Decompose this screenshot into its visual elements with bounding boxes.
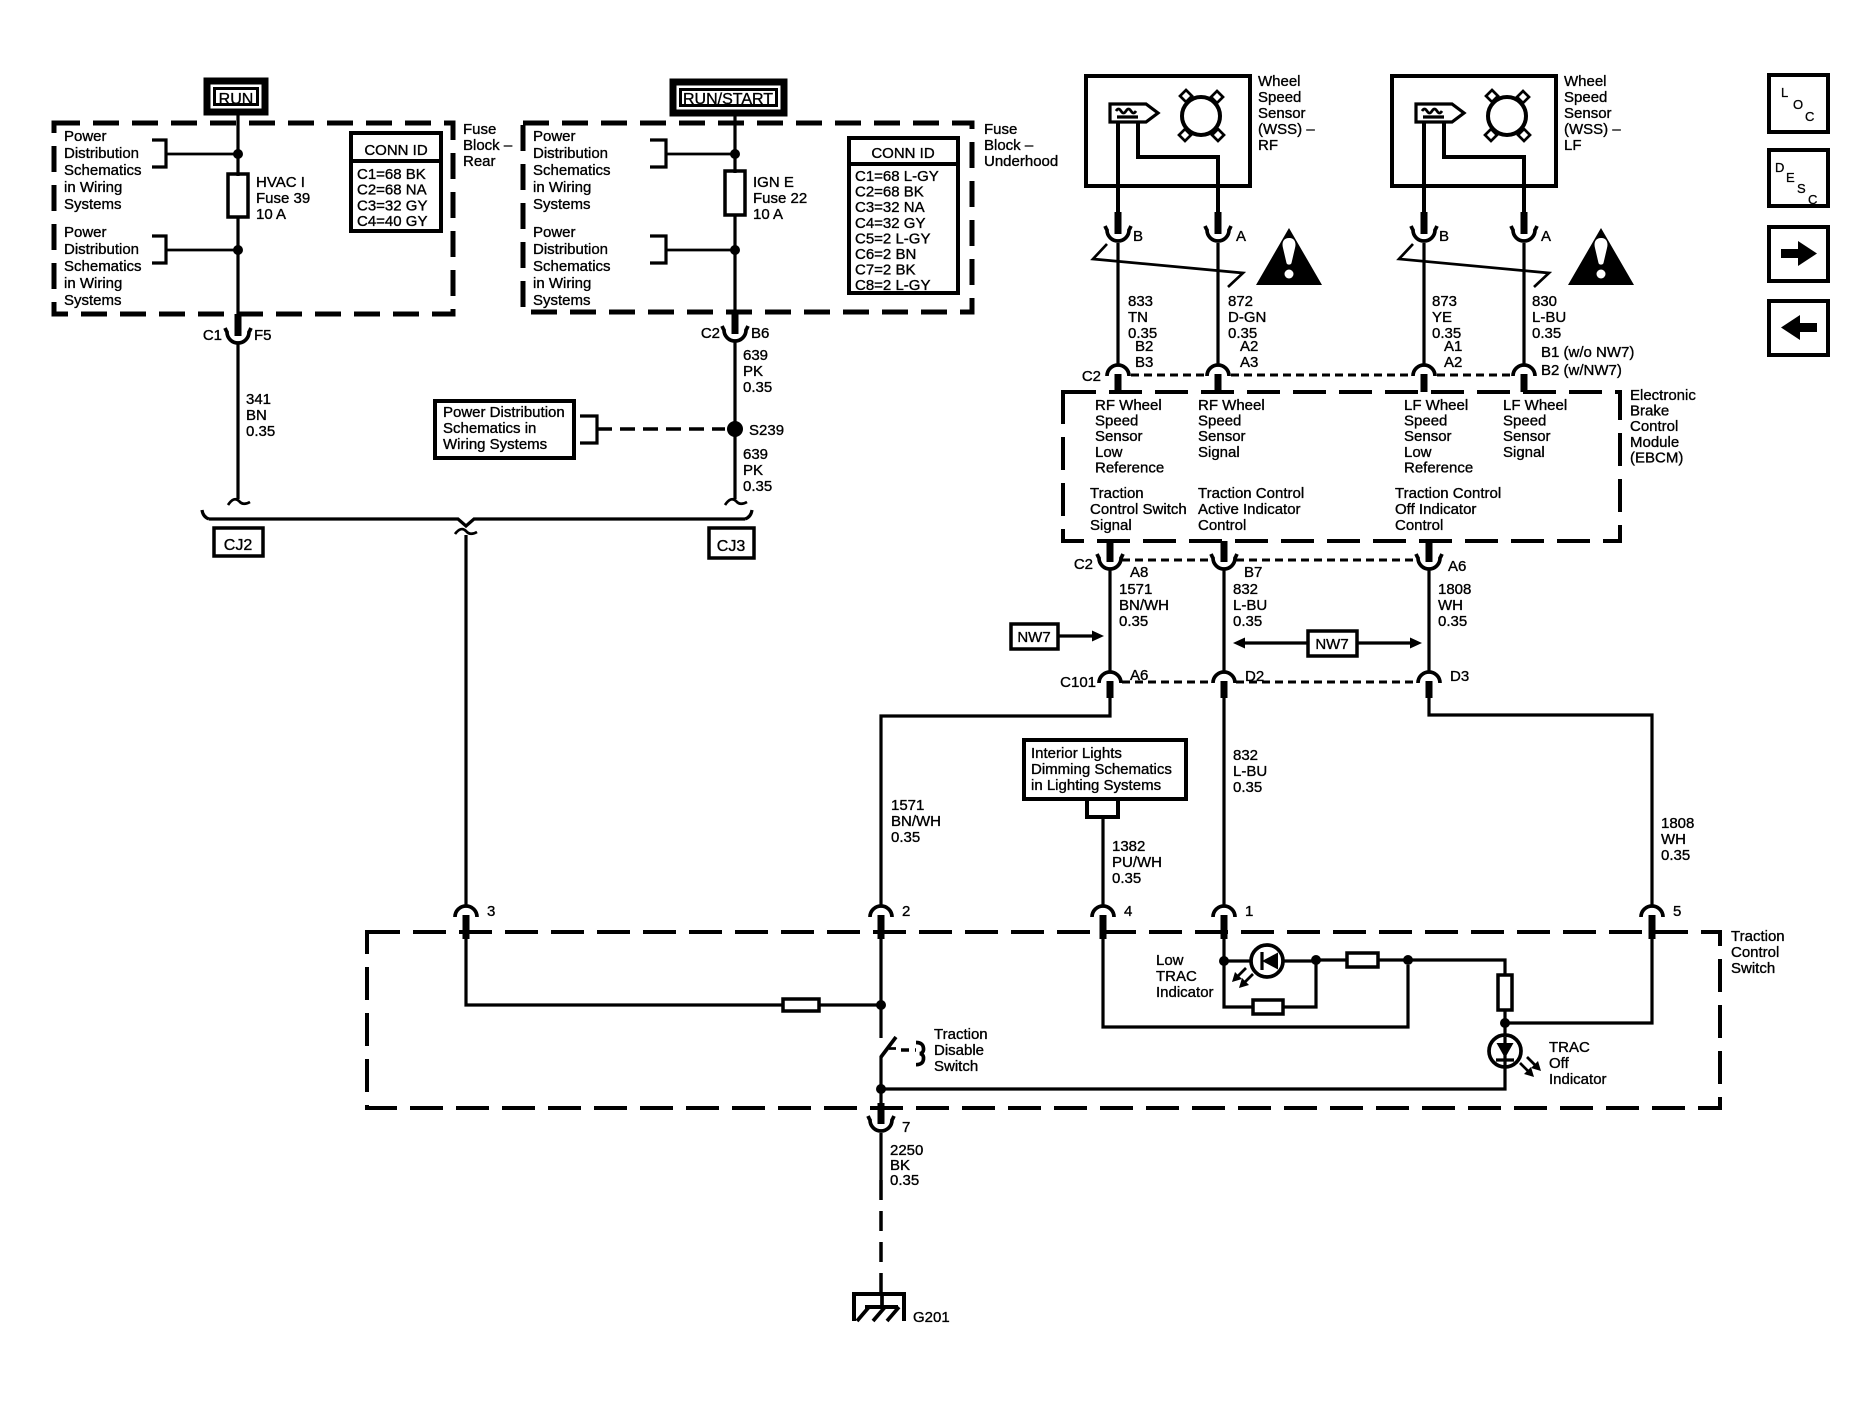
svg-text:C: C	[1805, 109, 1814, 124]
svg-text:1571: 1571	[1119, 581, 1152, 598]
svg-text:Off: Off	[1549, 1055, 1570, 1072]
svg-text:C5=2 L-GY: C5=2 L-GY	[855, 230, 930, 247]
DESC nav box	[1769, 150, 1828, 206]
warning triangle RF	[1256, 228, 1322, 285]
svg-text:Fuse 39: Fuse 39	[256, 190, 310, 207]
fuse IGN E Fuse 22 10A	[725, 171, 745, 215]
connector switch pin 7	[878, 1103, 885, 1124]
svg-text:Power: Power	[64, 224, 107, 241]
svg-text:639: 639	[743, 347, 768, 364]
svg-text:Interior Lights: Interior Lights	[1031, 745, 1122, 762]
svg-text:B3: B3	[1135, 354, 1153, 371]
junction node D	[1500, 1018, 1510, 1028]
svg-text:Power Distribution: Power Distribution	[443, 404, 565, 421]
wire 341 BN 0.35	[236, 344, 239, 499]
svg-text:S239: S239	[749, 422, 784, 439]
svg-text:C2: C2	[1082, 368, 1101, 385]
svg-text:0.35: 0.35	[1661, 847, 1690, 864]
svg-text:Systems: Systems	[64, 196, 122, 213]
CJ2 label box	[214, 528, 263, 556]
svg-text:A1: A1	[1444, 338, 1462, 355]
svg-text:830: 830	[1532, 293, 1557, 310]
connector line (fine dash) EBCM top	[1131, 374, 1206, 377]
svg-text:CJ2: CJ2	[224, 537, 253, 554]
sensor pickup icon	[1416, 104, 1464, 122]
fuse block rear dashed box	[54, 123, 453, 314]
svg-text:in Lighting Systems: in Lighting Systems	[1031, 777, 1161, 794]
svg-text:L-BU: L-BU	[1532, 309, 1566, 326]
svg-text:Control: Control	[1630, 418, 1678, 435]
svg-text:TRAC: TRAC	[1549, 1039, 1590, 1056]
svg-text:Fuse 22: Fuse 22	[753, 190, 807, 207]
svg-text:341: 341	[246, 391, 271, 408]
sensor wires inside box	[1422, 122, 1426, 213]
connector C2 pin B6	[732, 312, 739, 334]
wire note to node	[666, 249, 735, 252]
svg-text:832: 832	[1233, 747, 1258, 764]
svg-text:Signal: Signal	[1503, 444, 1545, 461]
svg-text:Module: Module	[1630, 434, 1679, 451]
wire 832 L-BU (lower) to switch pin 1	[1222, 698, 1225, 907]
bracket below interior lights box	[1087, 799, 1118, 817]
connector switch pin 2	[870, 906, 892, 917]
connector line (fine dash) C101	[1122, 681, 1212, 684]
svg-text:C3=32 NA: C3=32 NA	[855, 199, 925, 216]
svg-text:A2: A2	[1240, 338, 1258, 355]
wire splice hook into CJ2 bus	[228, 499, 250, 505]
parallel resistor branch	[1224, 961, 1253, 1007]
svg-text:Schematics: Schematics	[64, 258, 142, 275]
sensor pickup icon	[1110, 104, 1158, 122]
connector switch pin 4	[1092, 906, 1114, 917]
svg-text:G201: G201	[913, 1309, 950, 1326]
svg-text:Sensor: Sensor	[1564, 105, 1612, 122]
svg-text:0.35: 0.35	[743, 379, 772, 396]
svg-text:RF Wheel: RF Wheel	[1095, 397, 1162, 414]
svg-text:HVAC I: HVAC I	[256, 174, 305, 191]
power distribution schematics reference box	[435, 401, 574, 458]
svg-text:Underhood: Underhood	[984, 153, 1058, 170]
svg-text:4: 4	[1124, 903, 1132, 920]
svg-text:1571: 1571	[891, 797, 924, 814]
svg-text:Wiring Systems: Wiring Systems	[443, 436, 547, 453]
svg-text:Reference: Reference	[1095, 459, 1164, 476]
wire RUN box to fuse	[236, 113, 239, 176]
svg-text:BN: BN	[246, 407, 267, 424]
bracket reference box	[580, 416, 597, 443]
bracket lower note	[152, 236, 166, 263]
svg-text:0.35: 0.35	[1233, 779, 1262, 796]
svg-text:S: S	[1797, 181, 1806, 196]
svg-text:1: 1	[1245, 903, 1253, 920]
svg-text:D3: D3	[1450, 668, 1469, 685]
svg-text:WH: WH	[1661, 831, 1686, 848]
junction node lower (RUN feed)	[233, 245, 243, 255]
svg-text:Sensor: Sensor	[1503, 428, 1551, 445]
svg-text:C2: C2	[1074, 556, 1093, 573]
svg-text:1808: 1808	[1438, 581, 1471, 598]
svg-text:Schematics in: Schematics in	[443, 420, 536, 437]
CONN ID table (fuse block rear)	[351, 133, 441, 231]
ground G201	[854, 1294, 904, 1321]
svg-text:BN/WH: BN/WH	[891, 813, 941, 830]
svg-text:Wheel: Wheel	[1564, 73, 1607, 90]
svg-text:Distribution: Distribution	[533, 241, 608, 258]
svg-text:B2: B2	[1135, 338, 1153, 355]
wire pin 4 to node C branch	[1103, 939, 1408, 1027]
CJ3 label box	[709, 528, 754, 558]
svg-text:0.35: 0.35	[1532, 325, 1561, 342]
svg-text:Switch: Switch	[1731, 960, 1775, 977]
junction node upper (RUN feed)	[233, 149, 243, 159]
svg-text:872: 872	[1228, 293, 1253, 310]
svg-text:Signal: Signal	[1090, 517, 1132, 534]
svg-text:L-BU: L-BU	[1233, 763, 1267, 780]
LED low TRAC indicator	[1251, 945, 1283, 977]
fuse HVAC I Fuse 39 10A	[228, 174, 248, 217]
svg-text:B7: B7	[1244, 564, 1262, 581]
LED TRAC off indicator	[1489, 1035, 1521, 1067]
wire resistor to pin2 node	[819, 1003, 881, 1006]
svg-text:Indicator: Indicator	[1156, 984, 1214, 1001]
NW7 arrow 1	[1058, 634, 1094, 637]
NW7 arrows 2	[1243, 641, 1308, 644]
connector C101 pin D3	[1418, 672, 1440, 683]
svg-text:Reference: Reference	[1404, 459, 1473, 476]
bracket upper note	[152, 140, 166, 167]
svg-text:Systems: Systems	[533, 292, 591, 309]
wire TRAC off LED to switch node	[881, 1067, 1505, 1089]
svg-text:B: B	[1439, 228, 1449, 245]
svg-text:Sensor: Sensor	[1258, 105, 1306, 122]
wire LED to node B	[1283, 959, 1316, 962]
wheel speed sensor box WSS-LF	[1392, 76, 1556, 186]
svg-text:Fuse: Fuse	[984, 121, 1017, 138]
svg-text:Traction: Traction	[1090, 485, 1144, 502]
LOC nav box	[1769, 75, 1828, 132]
svg-text:RUN: RUN	[219, 91, 254, 108]
wire 2250 BK 0.35	[879, 1133, 882, 1180]
wire 830 L-BU LF-A	[1522, 243, 1525, 366]
RUN/START ignition voltage box	[673, 82, 784, 113]
connector entering EBCM at x=1524	[1513, 365, 1535, 376]
connector line (fine dash) EBCM bottom	[1122, 559, 1212, 562]
dashed ground lead	[879, 1180, 883, 1292]
svg-text:1382: 1382	[1112, 838, 1145, 855]
connector entering EBCM at x=1424	[1413, 365, 1435, 376]
svg-text:C2=68 NA: C2=68 NA	[357, 182, 427, 199]
EBCM dashed box	[1063, 392, 1620, 541]
resistor R3 (parallel with LED)	[1253, 1000, 1283, 1014]
junction node upper (RUN/START)	[730, 149, 740, 159]
svg-text:10 A: 10 A	[753, 206, 783, 223]
splice S239	[727, 421, 743, 437]
svg-text:(EBCM): (EBCM)	[1630, 449, 1683, 466]
wire switch lower	[879, 1056, 882, 1106]
connector switch pin 3	[455, 906, 477, 917]
svg-text:Speed: Speed	[1198, 413, 1241, 430]
svg-text:7: 7	[902, 1119, 910, 1136]
svg-text:Schematics: Schematics	[533, 162, 611, 179]
junction node pin2/resistor	[876, 1000, 886, 1010]
wire 833 TN RF-B	[1116, 243, 1119, 366]
svg-text:5: 5	[1673, 903, 1681, 920]
svg-text:C1=68 L-GY: C1=68 L-GY	[855, 168, 939, 185]
wire 832 L-BU (upper)	[1222, 570, 1225, 673]
svg-text:Power: Power	[533, 224, 576, 241]
svg-text:Low: Low	[1156, 952, 1184, 969]
svg-text:0.35: 0.35	[890, 1172, 919, 1189]
connector WSS pin B	[1115, 212, 1122, 234]
NW7 option box 2	[1308, 631, 1357, 656]
svg-text:RUN/START: RUN/START	[683, 91, 773, 108]
svg-text:in Wiring: in Wiring	[533, 275, 591, 292]
svg-text:Distribution: Distribution	[533, 145, 608, 162]
wire note to node	[666, 153, 735, 156]
connector WSS pin A	[1521, 212, 1528, 234]
wire pin 2 down	[879, 939, 882, 1038]
svg-text:WH: WH	[1438, 597, 1463, 614]
svg-text:B: B	[1133, 228, 1143, 245]
left arrow nav box	[1769, 301, 1828, 355]
wire pin 3 to resistor	[466, 939, 783, 1005]
svg-text:RF: RF	[1258, 137, 1278, 154]
sensor wires inside box	[1116, 122, 1120, 213]
wire 1382 PU/WH to switch pin 4	[1101, 817, 1104, 907]
connector C101 pin D2	[1213, 672, 1235, 683]
RUN ignition voltage box	[207, 81, 265, 112]
svg-text:A6: A6	[1448, 558, 1466, 575]
svg-text:Control: Control	[1731, 944, 1779, 961]
svg-text:F5: F5	[254, 327, 272, 344]
svg-text:0.35: 0.35	[1438, 613, 1467, 630]
tone wheel icon	[1488, 97, 1526, 135]
wire R1 to node C	[1378, 958, 1408, 961]
wire 1571 BN/WH (upper)	[1108, 570, 1111, 673]
svg-text:D-GN: D-GN	[1228, 309, 1266, 326]
svg-text:O: O	[1793, 97, 1803, 112]
svg-text:Speed: Speed	[1404, 413, 1447, 430]
svg-text:0.35: 0.35	[1233, 613, 1262, 630]
svg-text:Control: Control	[1198, 517, 1246, 534]
svg-text:Rear: Rear	[463, 153, 496, 170]
wire fuse to connector C2	[733, 215, 736, 314]
svg-text:Low: Low	[1404, 444, 1432, 461]
svg-text:Sensor: Sensor	[1198, 428, 1246, 445]
twisted pair symbol RF	[1093, 244, 1243, 287]
svg-text:B1 (w/o NW7): B1 (w/o NW7)	[1541, 344, 1634, 361]
dashed wire to S239	[597, 427, 725, 431]
connector EBCM output pin A8	[1107, 541, 1114, 562]
svg-text:Electronic: Electronic	[1630, 387, 1696, 404]
svg-text:Control: Control	[1395, 517, 1443, 534]
svg-text:2: 2	[902, 903, 910, 920]
svg-text:Low: Low	[1095, 444, 1123, 461]
connector entering EBCM at x=1118	[1107, 365, 1129, 376]
svg-text:B6: B6	[751, 325, 769, 342]
svg-text:C4=32 GY: C4=32 GY	[855, 215, 925, 232]
connector switch pin 1	[1213, 906, 1235, 917]
svg-text:LF Wheel: LF Wheel	[1503, 397, 1567, 414]
svg-text:C2: C2	[701, 325, 720, 342]
svg-text:10 A: 10 A	[256, 206, 286, 223]
wire 872 D-GN RF-A	[1216, 243, 1219, 366]
traction control switch dashed box	[367, 932, 1720, 1108]
svg-text:Schematics: Schematics	[64, 162, 142, 179]
svg-text:Speed: Speed	[1095, 413, 1138, 430]
svg-text:Dimming Schematics: Dimming Schematics	[1031, 761, 1172, 778]
bracket upper note underhood	[650, 140, 666, 167]
svg-text:C1: C1	[203, 327, 222, 344]
svg-text:Schematics: Schematics	[533, 258, 611, 275]
wire 1571 BN/WH (lower) to switch pin 2	[881, 698, 1110, 907]
svg-text:C3=32 GY: C3=32 GY	[357, 197, 427, 214]
wire RUN/START box to fuse	[733, 114, 736, 173]
svg-text:0.35: 0.35	[1119, 613, 1148, 630]
svg-text:C6=2 BN: C6=2 BN	[855, 246, 916, 263]
switch actuator dashed link	[901, 1048, 916, 1052]
wire low TRAC indicator feed (pin 1)	[1222, 939, 1225, 961]
wire from upper note to node	[166, 153, 238, 156]
wire fuse to connector C1	[236, 217, 239, 316]
wire splice hook into CJ3 bus	[725, 499, 747, 505]
svg-text:Traction Control: Traction Control	[1395, 485, 1501, 502]
wire R2 to node D	[1503, 1010, 1506, 1035]
svg-text:Power: Power	[533, 128, 576, 145]
connector C1 pin F5	[235, 314, 242, 336]
wire 1808 WH (upper)	[1427, 570, 1430, 673]
svg-text:Wheel: Wheel	[1258, 73, 1301, 90]
svg-text:E: E	[1786, 170, 1795, 185]
svg-text:IGN E: IGN E	[753, 174, 794, 191]
svg-text:Control Switch: Control Switch	[1090, 501, 1187, 518]
svg-text:(WSS) –: (WSS) –	[1258, 121, 1315, 138]
svg-text:PK: PK	[743, 462, 763, 479]
svg-text:0.35: 0.35	[1112, 870, 1141, 887]
svg-text:(WSS) –: (WSS) –	[1564, 121, 1621, 138]
svg-text:873: 873	[1432, 293, 1457, 310]
svg-text:Block –: Block –	[463, 137, 513, 154]
connector EBCM output pin A6	[1426, 541, 1433, 562]
junction node A	[1219, 956, 1229, 966]
svg-text:Traction: Traction	[1731, 928, 1785, 945]
junction node C	[1403, 955, 1413, 965]
svg-text:Distribution: Distribution	[64, 145, 139, 162]
svg-text:Off Indicator: Off Indicator	[1395, 501, 1476, 518]
svg-text:C2=68 BK: C2=68 BK	[855, 184, 924, 201]
twisted pair symbol LF	[1399, 244, 1549, 287]
svg-text:0.35: 0.35	[246, 423, 275, 440]
svg-text:in Wiring: in Wiring	[533, 179, 591, 196]
svg-text:A: A	[1541, 228, 1551, 245]
svg-text:Distribution: Distribution	[64, 241, 139, 258]
wire 639 PK 0.35 (upper)	[733, 342, 736, 499]
svg-text:639: 639	[743, 446, 768, 463]
svg-text:YE: YE	[1432, 309, 1452, 326]
svg-text:TN: TN	[1128, 309, 1148, 326]
connector WSS pin A	[1215, 212, 1222, 234]
svg-text:LF: LF	[1564, 137, 1582, 154]
svg-text:A: A	[1236, 228, 1246, 245]
right arrow nav box	[1769, 227, 1828, 281]
svg-text:C1=68 BK: C1=68 BK	[357, 166, 426, 183]
svg-text:C4=40 GY: C4=40 GY	[357, 213, 427, 230]
wire from lower note to node	[166, 249, 238, 252]
svg-text:Traction: Traction	[934, 1026, 988, 1043]
svg-text:Speed: Speed	[1258, 89, 1301, 106]
warning triangle LF	[1568, 228, 1634, 285]
svg-text:Speed: Speed	[1564, 89, 1607, 106]
svg-text:C7=2 BK: C7=2 BK	[855, 262, 915, 279]
svg-text:Traction Control: Traction Control	[1198, 485, 1304, 502]
svg-text:Power: Power	[64, 128, 107, 145]
wheel speed sensor box WSS-RF	[1086, 76, 1250, 186]
svg-text:L-BU: L-BU	[1233, 597, 1267, 614]
svg-text:A3: A3	[1240, 354, 1258, 371]
NW7 option box 1	[1011, 624, 1058, 649]
svg-text:Active Indicator: Active Indicator	[1198, 501, 1301, 518]
svg-text:in Wiring: in Wiring	[64, 275, 122, 292]
fuse block underhood dashed box	[523, 123, 972, 312]
svg-text:A6: A6	[1130, 667, 1148, 684]
svg-text:Brake: Brake	[1630, 403, 1669, 420]
LED light arrows (TRAC off)	[1520, 1063, 1530, 1073]
svg-text:Fuse: Fuse	[463, 121, 496, 138]
bracket lower note underhood	[650, 236, 666, 263]
wire bus to switch pin 3	[464, 535, 467, 907]
svg-text:Sensor: Sensor	[1404, 428, 1452, 445]
traction disable switch contact	[881, 1037, 896, 1057]
svg-text:Signal: Signal	[1198, 444, 1240, 461]
svg-text:TRAC: TRAC	[1156, 968, 1197, 985]
wire 873 YE LF-B	[1422, 243, 1425, 366]
wire node B to resistor R1	[1316, 958, 1347, 961]
bus exit squiggle	[455, 529, 477, 534]
svg-text:Speed: Speed	[1503, 413, 1546, 430]
svg-text:Sensor: Sensor	[1095, 428, 1143, 445]
junction node lower (RUN/START)	[730, 245, 740, 255]
svg-text:Indicator: Indicator	[1549, 1071, 1607, 1088]
connector EBCM output pin B7	[1221, 541, 1228, 562]
svg-text:CJ3: CJ3	[717, 538, 746, 555]
svg-text:Systems: Systems	[533, 196, 591, 213]
svg-text:NW7: NW7	[1315, 636, 1348, 653]
svg-text:PK: PK	[743, 363, 763, 380]
connector entering EBCM at x=1218	[1207, 365, 1229, 376]
svg-text:in Wiring: in Wiring	[64, 179, 122, 196]
svg-text:Block –: Block –	[984, 137, 1034, 154]
wire 1808 WH (lower) to switch pin 5	[1429, 698, 1652, 907]
svg-text:0.35: 0.35	[743, 478, 772, 495]
splice bus CJ2/CJ3	[209, 519, 745, 526]
svg-text:D2: D2	[1245, 668, 1264, 685]
svg-text:D: D	[1775, 160, 1784, 175]
connector switch pin 5	[1641, 906, 1663, 917]
junction node B	[1311, 955, 1321, 965]
connector C101 pin A6	[1099, 672, 1121, 683]
svg-text:3: 3	[487, 903, 495, 920]
resistor R1 (series)	[1347, 953, 1378, 967]
interior lights dimming reference box	[1024, 740, 1186, 799]
svg-text:Disable: Disable	[934, 1042, 984, 1059]
svg-text:C: C	[1808, 192, 1817, 207]
junction node switch output	[876, 1084, 886, 1094]
svg-text:CONN ID: CONN ID	[364, 142, 428, 159]
svg-text:1808: 1808	[1661, 815, 1694, 832]
svg-text:Systems: Systems	[64, 292, 122, 309]
svg-text:Switch: Switch	[934, 1058, 978, 1075]
svg-text:B2 (w/NW7): B2 (w/NW7)	[1541, 362, 1622, 379]
